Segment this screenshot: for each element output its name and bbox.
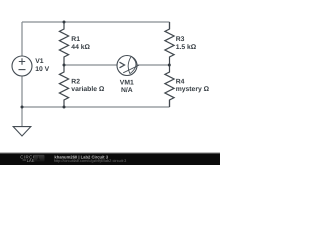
voltage source V1 xyxy=(12,56,32,76)
svg-text:R3: R3 xyxy=(176,36,185,43)
svg-text:N/A: N/A xyxy=(121,87,133,94)
svg-text:10 V: 10 V xyxy=(35,66,49,73)
wire left bottom xyxy=(21,76,23,127)
resistor R4 xyxy=(165,65,174,107)
svg-text:1.5 kΩ: 1.5 kΩ xyxy=(176,44,197,51)
junction node bottom R2 xyxy=(63,106,66,109)
label R4 mystery ohm xyxy=(176,78,210,93)
label R3 1.5 kohm xyxy=(176,36,197,51)
resistor R3 xyxy=(165,22,174,65)
wire bottom net xyxy=(22,106,170,108)
svg-text:VM1: VM1 xyxy=(120,79,134,86)
wire middle right xyxy=(137,64,170,66)
svg-text:V1: V1 xyxy=(35,58,44,65)
wire right branch top corner xyxy=(169,22,171,29)
junction node mid left xyxy=(63,64,66,67)
svg-text:R2: R2 xyxy=(71,78,80,85)
ground xyxy=(13,127,31,136)
label V1 10 V xyxy=(35,58,49,73)
label VM1 N/A xyxy=(120,79,134,94)
svg-text:mystery Ω: mystery Ω xyxy=(176,86,210,93)
junction node bottom left xyxy=(21,106,24,109)
resistor R2 xyxy=(59,65,68,107)
svg-text:LAB: LAB xyxy=(27,158,35,163)
svg-text:http://circuitlab.com/c/gzb9j6: http://circuitlab.com/c/gzb9j6/lab2-circ… xyxy=(54,158,126,163)
svg-text:44 kΩ: 44 kΩ xyxy=(71,44,90,51)
watermark logo CIRCUIT LAB xyxy=(20,154,44,163)
resistor R1 xyxy=(59,22,68,65)
wire left top xyxy=(21,22,23,56)
label R1 44 kohm xyxy=(71,36,90,51)
svg-text:R1: R1 xyxy=(71,36,80,43)
voltmeter VM1 xyxy=(117,56,139,76)
wire top net xyxy=(22,21,170,23)
junction node mid right xyxy=(168,64,171,67)
label R2 variable ohm xyxy=(71,78,105,93)
wire middle left xyxy=(64,64,117,66)
svg-text:R4: R4 xyxy=(176,78,185,85)
junction node top R1 xyxy=(63,21,66,24)
wire right branch bottom corner xyxy=(169,100,171,107)
svg-text:variable Ω: variable Ω xyxy=(71,86,105,93)
